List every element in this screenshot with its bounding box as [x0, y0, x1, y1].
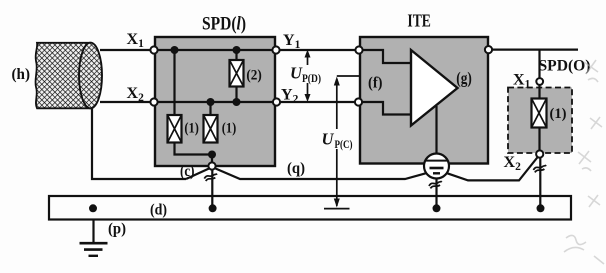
svg-text:SPD(l): SPD(l) [202, 13, 246, 34]
wire SPD internal: varistor (2) top lead [235, 50, 237, 60]
junction node on X2 wire at x=236 [233, 98, 241, 106]
label (g) [456, 69, 472, 88]
ITE enclosure box [360, 37, 488, 164]
terminal c of SPD [208, 162, 215, 169]
junction node on bar below ITE [433, 204, 441, 212]
earth down-lead from terminal c to bar [211, 168, 213, 208]
wire SPD internal: drop from X2 wire to varistor (1) right [209, 102, 211, 115]
label (c) [180, 163, 195, 180]
terminal Y1 of SPD [272, 46, 279, 53]
terminal X1 of SPD [150, 46, 157, 53]
terminal X2 of SPD(O) [536, 150, 543, 157]
dimension arrow UP(C) vertical [324, 77, 350, 209]
terminal X2 of SPD [150, 98, 157, 105]
label SPD(O) [539, 57, 591, 74]
SPD(O) dashed enclosure box [508, 88, 572, 154]
dimension reference line UP(C) top [337, 75, 360, 77]
svg-text:SPD(O): SPD(O) [539, 57, 591, 74]
surge component (1) in SPD(O) [532, 99, 547, 128]
earthing conductor from cable shield [92, 108, 186, 179]
svg-text:ITE: ITE [407, 11, 431, 31]
svg-text:(q): (q) [287, 160, 305, 177]
junction node on bar below SPD(O) [537, 204, 545, 212]
label (1) of SPD(O) [550, 106, 567, 122]
terminal Y2 of SPD [273, 98, 280, 105]
wire SPD internal: varistor (2) bottom lead [235, 87, 237, 103]
label X2 of SPD(O) [504, 154, 522, 173]
short-length squiggle mark at SPD(O) [533, 165, 546, 172]
earth down-lead from SPD(O) to bar [539, 157, 541, 209]
bonding bar (d) [49, 196, 571, 220]
junction node on bar below p [89, 204, 97, 212]
label ITE [407, 11, 431, 31]
svg-text:(c): (c) [180, 163, 195, 180]
bonding conductor slant to terminal c [186, 169, 209, 180]
svg-text:P(D): P(D) [302, 73, 321, 85]
svg-text:P(C): P(C) [335, 139, 353, 151]
label (f) [368, 74, 383, 91]
faint watermark strokes [564, 60, 604, 264]
label (1) left [184, 120, 199, 136]
bonding conductor ITE to SPD(O) [447, 156, 538, 180]
label (p) [108, 221, 126, 238]
wire SPD internal: bottom bus to terminal c [175, 143, 213, 167]
label (2) [246, 68, 261, 84]
label UP(C) [322, 130, 353, 152]
label (q) [287, 160, 305, 177]
wire ITE internal earth lead [435, 106, 437, 160]
junction node on bar below c [209, 204, 217, 212]
junction node on X1 wire at x=174 [171, 46, 179, 54]
SPD(O) internal wire X1 to X2 [538, 50, 540, 154]
svg-text:(1): (1) [184, 120, 199, 136]
svg-text:(h): (h) [12, 66, 31, 83]
dimension arrow UP(D) lower [305, 83, 311, 102]
ITE input block (f) bottom jog wire [358, 102, 411, 115]
earth electrode symbol (p) [80, 220, 108, 256]
short-length squiggle mark at ITE [429, 181, 442, 188]
label X2 left [127, 85, 145, 104]
junction node on X2 wire at x=210 [207, 98, 215, 106]
svg-text:(f): (f) [368, 74, 383, 91]
label Y2 [281, 87, 299, 106]
surge component (2) in SPD [230, 60, 244, 87]
terminal ITE input top [355, 46, 362, 53]
cable (h) end cap ellipse [79, 43, 102, 109]
short-length squiggle mark at c [204, 174, 217, 181]
label UP(D) [290, 64, 321, 86]
terminal ITE input bottom [355, 98, 362, 105]
junction node SPD bottom bus [208, 151, 216, 159]
surge component (1) right in SPD [204, 115, 218, 143]
terminal X1 of SPD(O) [536, 78, 543, 85]
wire ITE output conductor [488, 48, 578, 50]
junction node on X1 wire at x=236 [233, 46, 241, 54]
cable (h) body [35, 43, 90, 109]
wire X2->Y2 conductor [100, 101, 358, 103]
ITE input block (f) top jog wire [360, 50, 411, 63]
surge component (1) left in SPD [168, 115, 182, 143]
svg-text:(d): (d) [150, 202, 167, 219]
amplifier triangle (g) [411, 50, 458, 126]
svg-text:(g): (g) [456, 69, 472, 88]
dimension arrow UP(D) upper [305, 50, 311, 66]
svg-text:U: U [322, 130, 335, 149]
label X1 left [127, 31, 145, 50]
svg-text:(1): (1) [550, 106, 567, 122]
terminal ITE output [485, 46, 492, 53]
svg-text:(1): (1) [222, 120, 237, 136]
label (h) [12, 66, 31, 83]
label (d) [150, 202, 167, 219]
ITE protective earth circle symbol [424, 154, 449, 179]
wire X1->Y1 top conductor [100, 49, 359, 51]
bonding conductor (q) SPD to ITE [216, 169, 426, 180]
earth down-lead from ITE to bar [435, 178, 437, 208]
svg-text:(2): (2) [246, 68, 261, 84]
SPD(l) enclosure box [155, 37, 275, 166]
label Y1 [283, 32, 301, 51]
label X1 of SPD(O) [513, 72, 531, 91]
svg-text:(p): (p) [108, 221, 126, 238]
label SPD(l) [202, 13, 246, 34]
wire SPD internal: drop from X1 wire to varistor (1) left [173, 50, 175, 115]
label (1) right [222, 120, 237, 136]
